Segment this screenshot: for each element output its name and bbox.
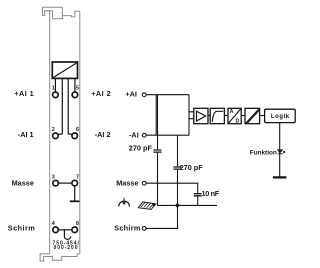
terminal Masse bbox=[142, 181, 146, 185]
svg-text:3: 3 bbox=[52, 174, 55, 180]
potential symbol (arc with arrow) bbox=[119, 201, 130, 206]
svg-text:1: 1 bbox=[52, 86, 55, 92]
wire -AI to input box bbox=[146, 134, 189, 136]
amplifier triangle bbox=[197, 111, 206, 121]
input box output tab bbox=[189, 112, 194, 119]
module outline top claw bbox=[42, 7, 79, 17]
wire pin3 to pin7 bbox=[58, 182, 72, 184]
module outline bottom feet bbox=[40, 254, 80, 261]
terminal Schirm bbox=[142, 227, 146, 231]
wire Logik to functional earth bbox=[279, 123, 281, 177]
C2 lower lead to bus junction bbox=[177, 170, 179, 206]
C1 lower lead to bus bbox=[157, 153, 159, 206]
A/D converter box U1 bbox=[52, 62, 77, 78]
amplifier box bbox=[194, 108, 208, 123]
wire +AI to input box bbox=[146, 94, 189, 96]
tap wire -AI down (cap C2 branch) bbox=[177, 135, 179, 166]
svg-text:000-200: 000-200 bbox=[54, 245, 79, 251]
lead to pin 6 bbox=[68, 79, 72, 135]
svg-text:Schirm: Schirm bbox=[114, 223, 141, 232]
nib filter to AD bbox=[224, 115, 228, 117]
converter box diagonal bbox=[53, 63, 76, 78]
lead to pin 1 bbox=[54, 79, 56, 92]
wire pin7 to chassis bbox=[74, 186, 76, 201]
A/D diagonal bbox=[228, 109, 241, 124]
wire pin4 to pin8 bbox=[58, 229, 72, 231]
svg-text:4: 4 bbox=[52, 221, 55, 227]
pin 6 contact bbox=[72, 133, 78, 139]
svg-text:-AI: -AI bbox=[129, 130, 139, 139]
svg-text:Logik: Logik bbox=[271, 114, 290, 120]
svg-text:Schirm: Schirm bbox=[8, 223, 35, 232]
svg-text:+AI: +AI bbox=[125, 90, 137, 99]
nib isolator to Logik bbox=[260, 115, 265, 117]
svg-text:Funktion: Funktion bbox=[250, 149, 277, 156]
shield bus wire bbox=[158, 204, 218, 206]
filter box bbox=[210, 108, 224, 123]
module outline right edge bbox=[79, 11, 81, 254]
terminal -AI bbox=[142, 133, 146, 137]
pin 8 contact bbox=[72, 227, 78, 233]
shield hook on pin4-8 wire bbox=[64, 230, 70, 240]
chassis bar bbox=[70, 200, 80, 202]
input box right edge bbox=[188, 95, 190, 136]
pin 5 contact bbox=[72, 92, 78, 98]
pin 2 contact bbox=[53, 133, 59, 139]
svg-text:A: A bbox=[230, 109, 234, 115]
capacitor C3 10 nF bbox=[194, 194, 202, 196]
terminal +AI bbox=[142, 93, 146, 97]
svg-text:8: 8 bbox=[76, 221, 79, 227]
capacitor C2 270 pF bbox=[173, 167, 181, 169]
svg-text:7: 7 bbox=[76, 174, 79, 180]
module outline left edge bbox=[49, 11, 51, 254]
junction dot on bus bbox=[176, 204, 180, 208]
isolation box bbox=[245, 108, 260, 123]
svg-text:D: D bbox=[236, 119, 240, 125]
svg-text:2: 2 bbox=[52, 127, 55, 133]
input box left edge bbox=[155, 95, 157, 136]
lead to pin 2 bbox=[58, 79, 62, 135]
svg-text:-AI 1: -AI 1 bbox=[18, 130, 34, 139]
filter curve bbox=[212, 111, 223, 122]
pin 1 contact bbox=[53, 92, 59, 98]
pin 4 contact bbox=[53, 227, 59, 233]
svg-text:10 nF: 10 nF bbox=[202, 189, 220, 198]
svg-text:Masse: Masse bbox=[12, 178, 34, 187]
functional earth glyph bbox=[277, 149, 283, 151]
wire Schirm up to bus junction bbox=[146, 205, 177, 228]
shield clamp wedge symbol bbox=[138, 202, 156, 210]
C3 lower lead to bus bbox=[197, 197, 199, 206]
pin 3 contact bbox=[53, 180, 59, 186]
svg-text:270 pF: 270 pF bbox=[129, 144, 153, 153]
svg-text:-AI 2: -AI 2 bbox=[95, 130, 111, 139]
nib AD to isolator bbox=[241, 115, 245, 117]
svg-text:+AI 2: +AI 2 bbox=[91, 89, 111, 98]
lead to pin 5 bbox=[74, 79, 76, 92]
svg-text:6: 6 bbox=[76, 127, 79, 133]
Logik box bbox=[265, 109, 296, 122]
A/D box bbox=[228, 108, 241, 123]
svg-text:Masse: Masse bbox=[116, 178, 138, 187]
svg-text:5: 5 bbox=[76, 86, 79, 92]
isolation diagonal band bbox=[246, 109, 260, 124]
pin 7 contact bbox=[72, 180, 78, 186]
svg-text:+AI 1: +AI 1 bbox=[14, 89, 34, 98]
tap wire +AI down (cap C1 branch) bbox=[157, 95, 159, 150]
capacitor C1 270 pF bbox=[154, 150, 162, 152]
module outline top pocket bbox=[45, 11, 63, 19]
wire Masse to 10nF branch bbox=[146, 183, 198, 193]
functional earth bar bbox=[273, 176, 287, 178]
nib amp to filter bbox=[208, 115, 210, 117]
svg-text:270 pF: 270 pF bbox=[180, 163, 204, 172]
